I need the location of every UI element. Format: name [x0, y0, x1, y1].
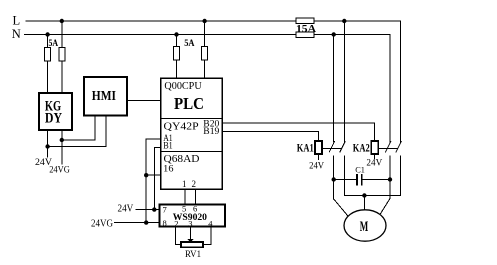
svg-text:B19: B19: [203, 126, 220, 136]
wire L end drop x400 lower: [400, 156, 402, 196]
svg-text:RV1: RV1: [185, 249, 201, 260]
svg-text:Q00CPU: Q00CPU: [164, 81, 202, 92]
wire B20 to KA2 coil: [222, 123, 374, 141]
svg-text:24V: 24V: [309, 161, 324, 171]
wire KA2 coil to 24V: [374, 154, 376, 158]
svg-text:KA2: KA2: [353, 142, 370, 154]
wire KGDY 24V output: [47, 130, 49, 157]
svg-text:24VG: 24VG: [49, 164, 70, 175]
fuse FU6 15A (N rail): [296, 32, 314, 37]
svg-text:PLC: PLC: [174, 94, 204, 113]
junction dot motor link: [362, 193, 366, 197]
wire HMI to PLC: [127, 99, 161, 101]
junction dot B1/24V: [152, 207, 156, 211]
wire L drop x344 lower to motor link: [343, 156, 345, 196]
wire L rail: [26, 20, 401, 22]
capacitor C1 right lead: [362, 179, 390, 181]
wire motor top stub: [363, 196, 365, 211]
PLC divider 1: [161, 118, 222, 120]
junction dot L x344: [342, 19, 346, 23]
svg-text:B1: B1: [163, 141, 173, 151]
wire N rail: [25, 34, 391, 36]
wire motor link bottom: [344, 195, 400, 197]
junction dot L x62: [60, 19, 64, 23]
svg-text:5A: 5A: [49, 38, 59, 48]
capacitor C1 plate 1: [356, 175, 358, 185]
KA2 linkage: [378, 147, 397, 149]
wire motor left diagonal: [334, 199, 348, 216]
wire WS9020 pin4 to RV1 right: [203, 227, 211, 245]
svg-text:2: 2: [174, 219, 178, 229]
fuse FU2 5A (left, L): [59, 21, 65, 93]
relay coil KA2: [371, 141, 378, 154]
HMI box: [84, 77, 127, 116]
svg-text:15A: 15A: [296, 24, 316, 35]
junction dot L x205: [202, 19, 206, 23]
svg-text:M: M: [360, 219, 369, 235]
wire L drop x344 upper: [343, 21, 345, 142]
PLC U1 box: [161, 78, 222, 189]
motor M: [344, 210, 386, 241]
junction dot C1 left: [332, 177, 336, 181]
wire WS9020 pin2 to RV1 left: [175, 227, 181, 245]
KA2 contact b blade: [396, 142, 401, 152]
potentiometer RV1 wiper arrow: [187, 239, 193, 242]
svg-text:2: 2: [192, 179, 197, 189]
junction dot N x48: [45, 32, 49, 36]
wire PLC pin16: [146, 174, 161, 176]
junction dot pin16/A1: [144, 173, 148, 177]
junction dot 24V output: [45, 144, 49, 148]
svg-text:C1: C1: [355, 165, 365, 175]
fuse FU1 5A (left, N): [45, 35, 51, 94]
KA1 linkage: [322, 147, 342, 149]
wire N drop x334 lower: [333, 156, 335, 199]
capacitor C1 plate 2: [361, 175, 363, 185]
svg-text:HMI: HMI: [92, 88, 116, 103]
power supply KG DY box: [39, 93, 72, 130]
capacitor C1 left lead: [334, 179, 357, 181]
wire WS9020 pin3 wiper: [190, 227, 192, 240]
KA1 contact b blade: [340, 142, 345, 152]
svg-text:N: N: [12, 27, 21, 41]
svg-text:1: 1: [182, 179, 187, 189]
svg-text:24V: 24V: [118, 203, 134, 214]
svg-text:24V: 24V: [366, 158, 382, 168]
wire L end drop x400 upper: [400, 21, 402, 142]
svg-text:24VG: 24VG: [91, 219, 113, 230]
PLC divider 2: [161, 150, 222, 152]
svg-text:16: 16: [163, 164, 174, 174]
junction dot A1/24VG: [144, 220, 148, 224]
fuse FU3 5A (middle, N): [174, 35, 180, 79]
svg-text:DY: DY: [45, 110, 62, 126]
wire B19 to KA1 coil: [222, 132, 318, 142]
wire PLC A1: [146, 139, 161, 222]
fuse FU5 15A (L rail): [296, 18, 314, 23]
junction dot N x334: [332, 32, 336, 36]
KA2 contact a blade: [386, 142, 391, 152]
wire 24VG rail: [115, 222, 160, 224]
svg-text:KA1: KA1: [297, 142, 314, 154]
svg-text:8: 8: [163, 218, 167, 228]
KA1 contact a blade: [329, 142, 334, 152]
wire HMI to 24VG link: [62, 116, 95, 140]
wire 24V rail: [136, 209, 160, 211]
wire N drop x334 upper: [333, 35, 335, 142]
wire motor right diagonal: [380, 199, 390, 215]
junction dot 24VG output: [60, 138, 64, 142]
fuse FU4 5A (middle, L): [202, 21, 208, 78]
svg-text:L: L: [13, 13, 21, 27]
relay coil KA1: [315, 141, 322, 154]
svg-text:7: 7: [163, 204, 167, 214]
wire PLC pin2 to WS9020 pin6: [194, 189, 196, 204]
junction dot C1 right: [388, 177, 392, 181]
wire N end drop x390 upper: [389, 35, 391, 142]
svg-text:Q68AD: Q68AD: [164, 153, 200, 165]
wire KGDY 24VG output: [61, 130, 63, 164]
wire N end drop x390 lower: [389, 156, 391, 199]
wire KA1 coil to 24V: [318, 154, 320, 159]
wire PLC pin1 to WS9020 pin5: [184, 189, 186, 204]
potentiometer RV1 body: [181, 242, 203, 247]
wire HMI to 24V link: [48, 116, 106, 147]
svg-text:QY42P: QY42P: [164, 121, 199, 133]
WS9020 U2 box: [160, 204, 226, 226]
wire PLC B1: [154, 147, 161, 209]
junction dot N x177: [174, 32, 178, 36]
svg-text:5A: 5A: [184, 38, 195, 48]
